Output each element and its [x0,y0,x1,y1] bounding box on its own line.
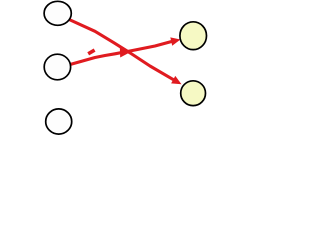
mid arrowhead at edge crossing [120,47,132,58]
node 2 (middle left) [44,54,70,80]
node 1 (top left) [44,1,71,25]
edge A: node 1 to node B2 [69,20,174,81]
small tick mark left of crossing [88,50,94,54]
arrowhead of edge A [171,76,181,84]
arrowhead of edge B [170,37,180,45]
node B1 (top right) [180,22,207,50]
node B2 (bottom right) [181,81,206,106]
edge B: node 2 to node B1 [71,41,173,64]
node 3 (bottom left) [46,109,72,134]
